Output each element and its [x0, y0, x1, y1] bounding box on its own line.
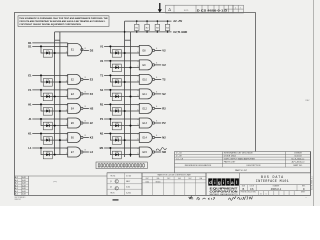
- printed circuit rev row: [240, 190, 311, 192]
- bus right 1 (+5 feed): [124, 21, 126, 157]
- svg-text:TR 2N: TR 2N: [110, 192, 114, 194]
- handwriting note bottom right: [229, 196, 253, 200]
- wire diode branch R1: [110, 104, 139, 111]
- svg-text:8: 8: [85, 106, 86, 108]
- title block: [107, 172, 311, 174]
- bus right 2: [130, 32, 132, 157]
- diode D18: [112, 64, 121, 72]
- svg-text:REFERENCE DESIGNATION: REFERENCE DESIGNATION: [185, 164, 212, 167]
- resistor R4: [167, 21, 169, 24]
- svg-text:E14: E14: [143, 137, 148, 140]
- bus left 1: [54, 32, 56, 155]
- wire input N1: [104, 133, 139, 135]
- svg-text:1: 1: [240, 7, 241, 9]
- bus left 2: [59, 32, 61, 155]
- svg-text:C1 - C9: C1 - C9: [176, 158, 184, 160]
- DEC digital logo: [208, 178, 239, 185]
- svg-text:E11: E11: [143, 93, 148, 96]
- svg-text:4: 4: [137, 119, 138, 121]
- junction row V1: [124, 52, 126, 54]
- svg-text:J1: J1: [29, 117, 32, 121]
- svg-text:8: 8: [85, 91, 86, 93]
- gate E8: [139, 45, 152, 55]
- svg-text:A·4: A·4: [15, 193, 18, 196]
- svg-text:6: 6: [156, 77, 157, 79]
- gate E9: [139, 60, 152, 70]
- wire input P1: [104, 118, 139, 120]
- svg-text:E13: E13: [143, 122, 148, 125]
- svg-text:2: 2: [66, 105, 67, 107]
- gate E1: [68, 43, 82, 55]
- svg-text:CS: CS: [250, 187, 254, 191]
- junction row T1: [124, 81, 126, 83]
- wire output F2: [83, 93, 89, 95]
- svg-text:8: 8: [85, 77, 86, 79]
- junction row L1: [54, 154, 56, 156]
- svg-text:1: 1: [66, 52, 67, 54]
- svg-text:d: d: [209, 180, 212, 185]
- conversion chart: [142, 173, 206, 196]
- svg-text:5: 5: [137, 139, 138, 141]
- svg-text:D2: D2: [90, 48, 94, 52]
- svg-text:g: g: [218, 180, 221, 185]
- wire input H1: [32, 103, 67, 105]
- svg-text:CIRCUITS ARE PROPRIETARY IN NA: CIRCUITS ARE PROPRIETARY IN NATURE AND S…: [19, 20, 105, 23]
- diode D20: [112, 79, 121, 87]
- svg-text:E10: E10: [143, 78, 148, 81]
- wire output U2: [155, 64, 162, 66]
- svg-text:DEC FORM NO: DEC FORM NO: [15, 197, 26, 199]
- svg-text:L2: L2: [90, 150, 94, 154]
- junction row H1: [59, 110, 61, 112]
- gate E11: [139, 89, 152, 99]
- svg-text:E2: E2: [90, 77, 94, 81]
- svg-text:INTERFACE M101: INTERFACE M101: [256, 179, 289, 183]
- wire input S1: [104, 89, 139, 91]
- svg-text:E12: E12: [143, 107, 148, 110]
- svg-text:10 25: 10 25: [184, 10, 189, 12]
- diode D26: [112, 122, 121, 130]
- rev grid cells: [258, 191, 260, 196]
- svg-text:1: 1: [66, 153, 67, 155]
- diode D5: [43, 93, 52, 101]
- svg-text:4-68: 4-68: [22, 180, 26, 182]
- edge connector table: [96, 162, 147, 169]
- +5V rail: [125, 20, 172, 22]
- svg-text:D1: D1: [28, 44, 32, 48]
- svg-text:4-68: 4-68: [22, 177, 26, 179]
- svg-text:2: 2: [66, 76, 67, 78]
- wire input F1: [32, 89, 67, 91]
- svg-text:4-68: 4-68: [22, 185, 26, 187]
- svg-text:CORPORATION: CORPORATION: [210, 190, 238, 194]
- svg-text:2: 2: [66, 47, 67, 49]
- svg-text:4: 4: [137, 90, 138, 92]
- svg-text:E15: E15: [143, 151, 148, 154]
- svg-text:INTEGRATED CKT DEC7400N: INTEGRATED CKT DEC7400N: [224, 152, 253, 155]
- svg-text:Δ: Δ: [168, 7, 171, 12]
- junction row F1: [54, 96, 56, 98]
- wire output L2: [83, 151, 89, 153]
- wire diode branch F1: [41, 90, 68, 97]
- junction row M1: [130, 154, 132, 156]
- svg-text:i: i: [223, 180, 224, 185]
- pencil note near E15 output: [156, 148, 167, 151]
- svg-text:2: 2: [66, 148, 67, 150]
- resistor R1: [136, 21, 138, 24]
- gate E14: [139, 133, 152, 143]
- svg-text:4-68: 4-68: [22, 191, 26, 193]
- wire input J1: [32, 118, 67, 120]
- svg-text:IN3606: IN3606: [156, 181, 161, 183]
- gate E13: [139, 118, 152, 128]
- pencil dash bottom middle: [113, 199, 119, 201]
- svg-text:6: 6: [156, 91, 157, 93]
- svg-text:4-68: 4-68: [22, 188, 26, 190]
- svg-text:SHEET: SHEET: [301, 192, 306, 194]
- svg-text:S1: S1: [100, 88, 104, 92]
- gate E15: [139, 147, 152, 157]
- svg-text:A·4: A·4: [15, 182, 18, 185]
- svg-text:B-CS-4606-0-1: B-CS-4606-0-1: [291, 158, 304, 160]
- svg-text:D-664: D-664: [126, 187, 130, 189]
- wire output D2: [83, 49, 89, 51]
- svg-text:A·4: A·4: [15, 190, 18, 193]
- wire input D1: [32, 45, 67, 47]
- svg-text:C2,T1 GND: C2,T1 GND: [173, 30, 187, 34]
- wire input V1: [104, 45, 139, 47]
- svg-text:D - 09: D - 09: [176, 156, 182, 158]
- svg-text:L1: L1: [28, 146, 32, 150]
- diode D11: [43, 137, 52, 145]
- svg-text:5: 5: [137, 95, 138, 97]
- svg-text:F2: F2: [90, 92, 94, 96]
- svg-text:6: 6: [156, 135, 157, 137]
- bus stub right: [125, 39, 131, 41]
- gate E5: [68, 118, 81, 128]
- svg-text:D664: D664: [146, 181, 150, 183]
- diode D30: [112, 151, 121, 159]
- svg-text:J2: J2: [90, 121, 93, 125]
- GND rail: [55, 31, 172, 33]
- drawing area smudge: [53, 181, 57, 184]
- svg-text:R2: R2: [162, 106, 166, 110]
- svg-text:R1: R1: [100, 102, 104, 106]
- svg-text:2: 2: [66, 119, 67, 121]
- transistor symbol Q2: [115, 187, 119, 191]
- svg-text:Q2: Q2: [110, 187, 112, 189]
- junction row J1: [54, 125, 56, 127]
- junction row S1: [130, 96, 132, 98]
- wire diode branch T1: [110, 75, 139, 82]
- svg-text:1: 1: [66, 81, 67, 83]
- svg-text:N2: N2: [162, 135, 166, 139]
- svg-text:5: 5: [137, 52, 138, 54]
- top drawing-number table: [166, 5, 234, 13]
- wire diode branch N1: [110, 134, 139, 141]
- wire diode branch E1: [41, 75, 68, 82]
- wire output P2: [155, 122, 162, 124]
- wire diode branch S1: [110, 90, 139, 97]
- wire output J2: [83, 122, 89, 124]
- svg-text:4: 4: [137, 47, 138, 49]
- svg-text:REV.: REV.: [302, 185, 306, 187]
- svg-text:P2: P2: [162, 121, 166, 125]
- diode D13: [43, 151, 52, 159]
- svg-text:S2: S2: [162, 92, 166, 96]
- wire output E2: [83, 78, 89, 80]
- svg-text:1909828: 1909828: [294, 153, 302, 155]
- svg-text:8: 8: [85, 121, 86, 123]
- wire diode branch H1: [41, 104, 68, 111]
- svg-text:M1: M1: [100, 146, 104, 150]
- svg-text:5: 5: [137, 81, 138, 83]
- svg-text:1: 1: [66, 124, 67, 126]
- svg-text:E1: E1: [28, 73, 32, 77]
- gate E2: [68, 74, 81, 84]
- diode D3: [43, 79, 52, 87]
- svg-text:A·4: A·4: [15, 187, 18, 190]
- junction row R1: [124, 110, 126, 112]
- svg-text:GWR 4 INPUT NAND AMPLIFIER: GWR 4 INPUT NAND AMPLIFIER: [224, 157, 256, 160]
- svg-text:1100113: 1100113: [294, 156, 301, 158]
- svg-text:8: 8: [85, 48, 86, 50]
- svg-text:1: 1: [66, 95, 67, 97]
- svg-text:V1: V1: [100, 44, 104, 48]
- proprietary notice box: [18, 16, 109, 27]
- svg-text:THIS SCHEMATIC IS FURNISHED ON: THIS SCHEMATIC IS FURNISHED ONLY FOR TES…: [19, 17, 108, 20]
- wire output R2: [155, 107, 162, 109]
- svg-text:8: 8: [85, 135, 86, 137]
- svg-text:2: 2: [66, 90, 67, 92]
- svg-text:1: 1: [66, 110, 67, 112]
- wire output K2: [83, 137, 89, 139]
- gate E7: [68, 147, 81, 157]
- junction row P1: [130, 125, 132, 127]
- svg-text:2: 2: [66, 134, 67, 136]
- wire diode branch M1: [110, 148, 139, 155]
- junction row N1: [124, 139, 126, 141]
- svg-text:H2: H2: [90, 106, 94, 110]
- diode D16: [112, 50, 121, 58]
- wire output M2: [155, 151, 162, 153]
- diode D24: [112, 108, 121, 116]
- wire input M1: [104, 147, 139, 149]
- transistor symbol Q1: [115, 180, 119, 184]
- wire input E1: [32, 74, 67, 76]
- svg-text:4-68: 4-68: [22, 194, 26, 196]
- svg-text:PRINTED CIRCUIT REV.: PRINTED CIRCUIT REV.: [241, 192, 257, 194]
- svg-text:4: 4: [137, 148, 138, 150]
- svg-text:6: 6: [156, 121, 157, 123]
- wire output T2: [155, 78, 162, 80]
- revision arrow: [159, 3, 161, 9]
- svg-text:∼: ∼: [305, 197, 307, 200]
- wire diode branch V1: [110, 46, 139, 53]
- svg-text:5: 5: [137, 110, 138, 112]
- svg-text:A-PL-4606-0-0: A-PL-4606-0-0: [292, 161, 305, 164]
- svg-text:8: 8: [85, 150, 86, 152]
- resistor R2: [146, 21, 148, 24]
- wire diode branch K1: [41, 134, 68, 141]
- svg-text:4: 4: [137, 76, 138, 78]
- wire diode branch D1: [41, 46, 68, 53]
- svg-text:a: a: [231, 180, 234, 185]
- svg-text:6: 6: [156, 48, 157, 50]
- svg-text:6: 6: [156, 62, 157, 64]
- svg-text:B: B: [243, 187, 245, 191]
- svg-text:U1: U1: [100, 59, 104, 63]
- bus stub left: [55, 39, 60, 41]
- gate E6: [68, 133, 81, 143]
- wire output S2: [155, 93, 162, 95]
- junction row K1: [59, 139, 61, 141]
- diode D22: [112, 93, 121, 101]
- wire input K1: [32, 133, 67, 135]
- page edge: [313, 0, 315, 206]
- gate E3: [68, 89, 81, 99]
- diode D7: [43, 108, 52, 116]
- wire input T1: [104, 74, 139, 76]
- svg-text:Q1: Q1: [110, 181, 112, 183]
- resistor R3: [156, 21, 158, 24]
- wire input L1: [32, 147, 67, 149]
- wire input D0: [32, 42, 67, 44]
- svg-text:T1: T1: [100, 73, 104, 77]
- junction row U1: [130, 67, 132, 69]
- svg-text:DIODE D664: DIODE D664: [224, 156, 237, 158]
- junction row D1: [54, 52, 56, 54]
- border frame: [15, 13, 256, 196]
- svg-text:U2: U2: [162, 63, 166, 67]
- parts list table: [175, 152, 311, 173]
- top strip extra cells: [233, 5, 244, 13]
- svg-text:B-CS-4606-0-1: B-CS-4606-0-1: [312, 175, 314, 189]
- svg-text:DRB 102: DRB 102: [15, 199, 21, 201]
- svg-text:COPYRIGHT 1968 BY DIGITAL EQUI: COPYRIGHT 1968 BY DIGITAL EQUIPMENT CORP…: [19, 23, 81, 26]
- gate E12: [139, 103, 152, 113]
- svg-text:D - 04: D - 04: [176, 153, 182, 155]
- svg-text:i: i: [214, 180, 215, 185]
- svg-text:N1: N1: [100, 131, 104, 135]
- svg-text:K1: K1: [28, 131, 32, 135]
- svg-text:M2: M2: [162, 150, 166, 154]
- svg-text:A·4: A·4: [15, 176, 18, 179]
- svg-text:K2: K2: [90, 135, 94, 139]
- wire diode branch L1: [41, 148, 68, 155]
- size code number row: [240, 184, 311, 186]
- svg-text:A·4: A·4: [15, 184, 18, 187]
- svg-text:5: 5: [137, 124, 138, 126]
- svg-text:A·4: A·4: [15, 179, 18, 182]
- svg-text:5: 5: [137, 66, 138, 68]
- svg-text:D CS 4606-0-1 D: D CS 4606-0-1 D: [197, 9, 228, 12]
- wire diode branch P1: [110, 119, 139, 126]
- transistor symbol table: [107, 173, 142, 196]
- svg-text:4-68: 4-68: [22, 183, 26, 185]
- diode D1: [43, 50, 52, 58]
- wire output V2: [155, 49, 162, 51]
- svg-text:T2: T2: [162, 77, 166, 81]
- svg-text:4606-0-1: 4606-0-1: [271, 187, 282, 191]
- gate E10: [139, 74, 152, 84]
- svg-text:V2: V2: [162, 48, 166, 52]
- junction row E1: [59, 81, 61, 83]
- wire diode branch J1: [41, 119, 68, 126]
- svg-text:6: 6: [156, 106, 157, 108]
- svg-text:4: 4: [137, 105, 138, 107]
- svg-text:2: 2: [235, 7, 236, 9]
- wire output N2: [155, 137, 162, 139]
- svg-text:F1: F1: [28, 88, 32, 92]
- svg-text:D1: D1: [28, 41, 32, 45]
- svg-text:H1: H1: [28, 102, 32, 106]
- svg-text:1: 1: [266, 193, 267, 195]
- wire diode branch U1: [110, 61, 139, 68]
- svg-text:4: 4: [137, 61, 138, 63]
- diode D9: [43, 122, 52, 130]
- bottom section top line: [15, 175, 107, 177]
- handwriting hash p ink: [188, 196, 214, 200]
- gate E4: [68, 103, 81, 113]
- svg-text:l: l: [236, 180, 237, 185]
- svg-text:S-2904: S-2904: [126, 192, 131, 194]
- wire input U1: [104, 60, 139, 62]
- svg-text:DESCRIPTION: DESCRIPTION: [247, 165, 261, 167]
- diode D28: [112, 137, 121, 145]
- svg-text:TR 2N4: TR 2N4: [110, 176, 115, 178]
- svg-text:A2 +5V: A2 +5V: [173, 19, 182, 23]
- svg-text:1: 1: [66, 139, 67, 141]
- wire output H2: [83, 107, 89, 109]
- wire input R1: [104, 103, 139, 105]
- svg-text:P1: P1: [100, 117, 104, 121]
- svg-text:PART NO.: PART NO.: [293, 164, 303, 167]
- revision history box: [28, 176, 30, 195]
- svg-text:PARTS LIST: PARTS LIST: [224, 161, 236, 164]
- svg-text:PARTS LIST: PARTS LIST: [235, 169, 248, 172]
- svg-text:5: 5: [137, 153, 138, 155]
- svg-text:4: 4: [137, 134, 138, 136]
